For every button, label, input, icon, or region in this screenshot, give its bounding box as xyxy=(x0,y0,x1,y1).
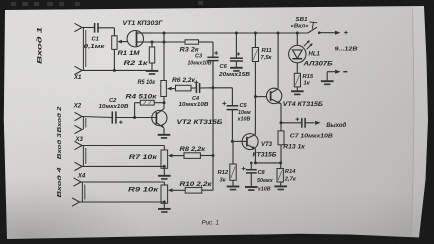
wire down to C5 xyxy=(231,88,233,106)
wire X1 ground bus xyxy=(82,69,152,71)
ground at minus terminal xyxy=(321,80,334,82)
junction bus / R8 xyxy=(212,154,215,157)
wire to R4 left xyxy=(135,102,141,104)
svg-text:R1 1М: R1 1М xyxy=(118,50,141,57)
svg-text:С5: С5 xyxy=(240,103,248,109)
svg-text:С8: С8 xyxy=(258,170,266,176)
wiper arrow R7 xyxy=(168,154,173,158)
svg-text:х10В: х10В xyxy=(237,117,251,123)
resistor R1 1M vertical xyxy=(112,36,117,50)
svg-text:20мкх15В: 20мкх15В xyxy=(218,72,250,78)
resistor R13 1k vertical xyxy=(278,131,284,145)
svg-text:10мкх10В: 10мкх10В xyxy=(99,104,129,110)
wire down to R9 xyxy=(163,182,165,185)
svg-text:2,7к: 2,7к xyxy=(284,177,297,183)
ground under R15 xyxy=(291,90,304,92)
svg-text:Вход 4: Вход 4 xyxy=(57,166,63,197)
wire mixing bus vertical xyxy=(212,61,214,191)
resistor R10 2.2k horizontal xyxy=(185,188,202,194)
plus of C7 xyxy=(296,117,300,121)
VT2 base bar xyxy=(155,112,157,124)
wire R3 to C3 xyxy=(199,41,214,43)
svg-text:АЛ307Б: АЛ307Б xyxy=(302,61,333,67)
wire R11 to VT3 collector xyxy=(254,62,256,135)
junction R1/ground bus xyxy=(113,69,116,72)
wire to C7 xyxy=(281,122,301,124)
svg-text:R2 1к: R2 1к xyxy=(124,60,149,67)
potentiometer R5 10k xyxy=(161,81,167,97)
HL1 emission arrows xyxy=(304,42,312,50)
junction C5 / R12 / VT3 base xyxy=(231,140,234,143)
junction emitter / C7 xyxy=(280,121,283,124)
svg-text:R15: R15 xyxy=(303,74,314,80)
transistor VT4 KT315B circle xyxy=(266,88,281,103)
junction mixing bus node xyxy=(212,86,215,89)
svg-text:Выход: Выход xyxy=(326,122,346,129)
wire top +V rail xyxy=(152,32,308,34)
wire C3 to mix bus xyxy=(212,61,214,88)
svg-text:R6 2,2к: R6 2,2к xyxy=(172,78,196,84)
capacitor C4 10uF xyxy=(195,83,197,93)
ground under R12 xyxy=(227,186,240,188)
wire R10 to bus xyxy=(202,189,213,191)
resistor R6 2.2k horizontal xyxy=(176,85,192,91)
svg-text:R7 10к: R7 10к xyxy=(129,154,158,161)
junction VT3 emitter node xyxy=(254,161,257,164)
wire R8 to bus xyxy=(200,155,213,157)
VT4 collector diagonal xyxy=(271,89,278,94)
junction R13/R14 node xyxy=(279,161,282,164)
svg-text:R10 2,2к: R10 2,2к xyxy=(180,182,213,188)
wire X2 to C2 xyxy=(82,117,112,118)
svg-text:0,1мк: 0,1мк xyxy=(84,44,106,50)
junction R11 / VT4 base xyxy=(254,95,257,98)
svg-text:R4 510к: R4 510к xyxy=(126,95,158,101)
wire X3 ground to R7 bottom xyxy=(82,165,164,167)
transistor VT3 KT315B circle xyxy=(242,134,258,150)
resistor R12 3k vertical xyxy=(230,164,236,180)
wire to R2 xyxy=(151,42,153,47)
svg-text:Вход 1: Вход 1 xyxy=(37,26,44,64)
junction X4 gnd / R9 bottom xyxy=(163,201,166,204)
switch actuator symbol xyxy=(310,22,318,29)
wire R6 to C4 xyxy=(191,87,196,89)
wire switch to plus terminal xyxy=(319,32,335,34)
svg-text:VT3: VT3 xyxy=(261,142,273,148)
svg-text:Вход 3: Вход 3 xyxy=(57,132,63,159)
connector X2 input jack xyxy=(75,112,83,120)
wire rail down to R5 xyxy=(163,33,165,81)
HL1 cathode bar xyxy=(292,58,302,60)
svg-text:С7 10мкх10В: С7 10мкх10В xyxy=(290,134,333,140)
resistor R4 510k horizontal xyxy=(140,100,154,105)
capacitor C3 10uF xyxy=(207,56,218,58)
plus of C5 xyxy=(222,101,226,105)
wire R5 wiper to R6 xyxy=(172,88,176,90)
wire R13 to emitter node xyxy=(280,145,282,163)
svg-text:HL1: HL1 xyxy=(309,51,321,57)
VT3 base bar xyxy=(246,137,248,147)
resistor R15 1k vertical xyxy=(294,73,300,87)
wire source to R3 xyxy=(152,41,185,43)
switch SB1 xyxy=(308,27,317,33)
wire VT4 emitter down xyxy=(280,104,282,131)
VT4 emitter diagonal xyxy=(271,99,281,104)
wire X3 to R7 top xyxy=(82,145,164,147)
svg-text:X2: X2 xyxy=(73,104,82,110)
wire R7 bottom to ground xyxy=(163,168,165,175)
svg-text:R11: R11 xyxy=(262,48,272,54)
wire to VT3 base xyxy=(232,140,247,142)
LED HL1 AL307B circle xyxy=(289,45,306,62)
junction X3 gnd / R7 bottom xyxy=(163,165,166,168)
svg-text:9...12В: 9...12В xyxy=(335,46,359,52)
VT1 source wire xyxy=(137,41,153,43)
gate arrow of VT1 xyxy=(117,40,122,44)
wiper arrow R5 xyxy=(167,87,172,91)
wire up to R4 xyxy=(134,103,136,118)
wire rail to R11 xyxy=(254,33,256,48)
svg-text:VT2 КТ315Б: VT2 КТ315Б xyxy=(177,119,224,126)
wire C7 to output xyxy=(305,122,314,124)
plus of C3 xyxy=(214,51,218,55)
wire rail to C6 xyxy=(235,33,237,58)
VT2 emitter diagonal xyxy=(157,123,164,128)
junction source row / R5 column xyxy=(163,41,166,44)
wire R1 bottom to ground bus xyxy=(113,49,115,70)
svg-text:х10В: х10В xyxy=(257,187,271,193)
minus terminal arrow xyxy=(335,70,341,74)
svg-text:С6: С6 xyxy=(220,64,228,70)
svg-text:«Вкл»: «Вкл» xyxy=(291,24,309,30)
svg-text:R13 1к: R13 1к xyxy=(283,145,306,151)
ground under R7 xyxy=(158,175,171,177)
transistor VT1 KP303G circle xyxy=(127,31,143,47)
VT2 collector diagonal xyxy=(157,109,164,114)
ground under C6 xyxy=(230,67,243,69)
junction R4 / VT2 collector xyxy=(163,101,166,104)
svg-text:10мк: 10мк xyxy=(238,110,251,116)
ground under VT2 emitter xyxy=(158,134,171,136)
capacitor C8 50uF xyxy=(246,169,257,171)
svg-text:С3: С3 xyxy=(195,54,203,60)
VT3 emitter diagonal xyxy=(247,145,255,149)
junction rail / HL1 xyxy=(296,32,299,35)
svg-text:С1: С1 xyxy=(92,37,99,43)
svg-text:X4: X4 xyxy=(77,173,86,179)
svg-text:R9 10к: R9 10к xyxy=(128,187,159,194)
capacitor C1 0,1uF xyxy=(94,23,96,33)
svg-text:КТ315Б: КТ315Б xyxy=(253,153,278,159)
resistor R2 1k vertical xyxy=(149,47,154,63)
paper grain xyxy=(0,0,1,1)
capacitor C5 10uF xyxy=(227,105,239,107)
junction rail / R5 column xyxy=(163,32,166,35)
svg-text:VT1 КП303Г: VT1 КП303Г xyxy=(123,20,164,27)
plus of C2 xyxy=(119,120,123,124)
wire C8 to ground xyxy=(250,173,252,187)
svg-text:3к: 3к xyxy=(220,178,227,184)
ground under C8 xyxy=(245,186,258,188)
wire C6 to ground xyxy=(235,61,237,67)
wire C5 to VT3 base xyxy=(231,110,233,142)
connector X4 input jack xyxy=(74,178,82,186)
junction VT1 source / R2 xyxy=(151,41,154,44)
wire R15 to ground xyxy=(296,87,298,91)
wire rail to HL1 xyxy=(296,33,298,45)
svg-text:Вход 2: Вход 2 xyxy=(57,105,63,132)
transistor VT2 KT315B circle xyxy=(152,110,167,125)
connector X1 input jack xyxy=(75,23,83,31)
wire R12 to ground xyxy=(232,180,234,186)
wire R9 bottom to ground xyxy=(163,203,165,208)
wire down to R1 xyxy=(113,28,115,36)
ground under R9 xyxy=(158,208,171,210)
junction rail / C6 xyxy=(235,32,238,35)
VT3 collector diagonal xyxy=(247,135,255,139)
VT1 drain wire to top rail xyxy=(137,32,153,34)
wire to VT4 base xyxy=(255,96,266,98)
svg-text:X1: X1 xyxy=(73,75,82,81)
junction base / R4 xyxy=(133,116,136,119)
svg-text:Рис. 1: Рис. 1 xyxy=(202,219,220,226)
svg-text:SВ1: SВ1 xyxy=(296,17,308,23)
svg-text:R5 10к: R5 10к xyxy=(138,80,156,86)
wire VT3 emitter down xyxy=(254,149,256,163)
gate wire to VT1 xyxy=(122,41,127,43)
ground under R14 xyxy=(274,185,287,187)
resistor R8 2.2k horizontal xyxy=(184,153,200,159)
wire X4 to R9 top xyxy=(81,181,164,183)
plus of C6 xyxy=(237,52,241,56)
plus of C4 xyxy=(194,80,198,84)
wire emitter node to R13/R14 xyxy=(255,162,280,164)
connector X3 input jack xyxy=(75,141,83,149)
wire VT2 emitter to ground xyxy=(163,128,165,134)
junction C8 top xyxy=(250,162,253,165)
wire R4 right to collector column xyxy=(154,102,164,104)
svg-text:R3 2к: R3 2к xyxy=(180,47,200,53)
svg-text:VT4 КТ315Б: VT4 КТ315Б xyxy=(283,101,324,108)
wire X1 signal to C1 xyxy=(82,27,94,29)
potentiometer R9 10k xyxy=(161,185,168,203)
potentiometer R7 10k xyxy=(161,150,168,168)
wire node to R14 xyxy=(280,163,282,169)
svg-text:R8 2,2к: R8 2,2к xyxy=(180,147,207,153)
resistor R14 2.7k vertical xyxy=(277,169,283,183)
svg-text:7,5к: 7,5к xyxy=(261,55,273,61)
output terminal arrow xyxy=(315,121,321,125)
wire X4 ground to R9 bottom xyxy=(80,201,165,203)
wire HL1 to R15 xyxy=(296,63,298,74)
capacitor C7 10uF xyxy=(301,118,303,128)
switch contact xyxy=(318,31,321,34)
svg-text:X3: X3 xyxy=(75,137,84,143)
wire R2 to ground xyxy=(151,63,153,70)
wire R14 to ground xyxy=(280,182,282,186)
junction rail / R11 xyxy=(254,32,257,35)
wire VT2 collector to R5 bottom xyxy=(163,96,165,109)
capacitor C2 10uF xyxy=(111,111,113,123)
wire VT4 collector to rail xyxy=(277,33,279,89)
VT4 base bar xyxy=(270,91,272,101)
wire to R12 xyxy=(232,141,234,164)
wire R9 wiper to R10 xyxy=(173,189,186,191)
wiper arrow R9 xyxy=(168,188,173,192)
ground under R2 xyxy=(146,70,159,72)
wire C2 to VT2 base xyxy=(116,117,156,119)
plus terminal arrow xyxy=(335,31,341,35)
svg-text:10мкх10В: 10мкх10В xyxy=(188,61,212,67)
resistor R11 7.5k vertical xyxy=(252,48,258,62)
svg-text:1к: 1к xyxy=(304,80,311,86)
VT1 channel bar xyxy=(136,31,138,46)
wire C4 to mix bus xyxy=(200,87,213,89)
svg-text:10мкх10В: 10мкх10В xyxy=(179,102,209,108)
svg-text:50мкх: 50мкх xyxy=(257,178,274,184)
wire down to R7 xyxy=(163,146,165,151)
plus of C8 xyxy=(242,167,246,171)
svg-text:+: + xyxy=(344,28,349,37)
capacitor C6 20uF xyxy=(230,57,243,59)
page fold line right side xyxy=(412,8,414,236)
svg-text:R12: R12 xyxy=(218,170,229,176)
wire R7 wiper to R8 xyxy=(173,155,185,157)
svg-text:R14: R14 xyxy=(285,169,296,175)
wire bus to C5 xyxy=(213,87,232,89)
wire down to C3 xyxy=(212,42,214,57)
wire C1 to R1 top xyxy=(98,27,114,29)
junction rail / VT4 collector xyxy=(277,32,280,35)
resistor R3 2k horizontal xyxy=(185,40,199,44)
wire node to C8 xyxy=(250,163,252,170)
